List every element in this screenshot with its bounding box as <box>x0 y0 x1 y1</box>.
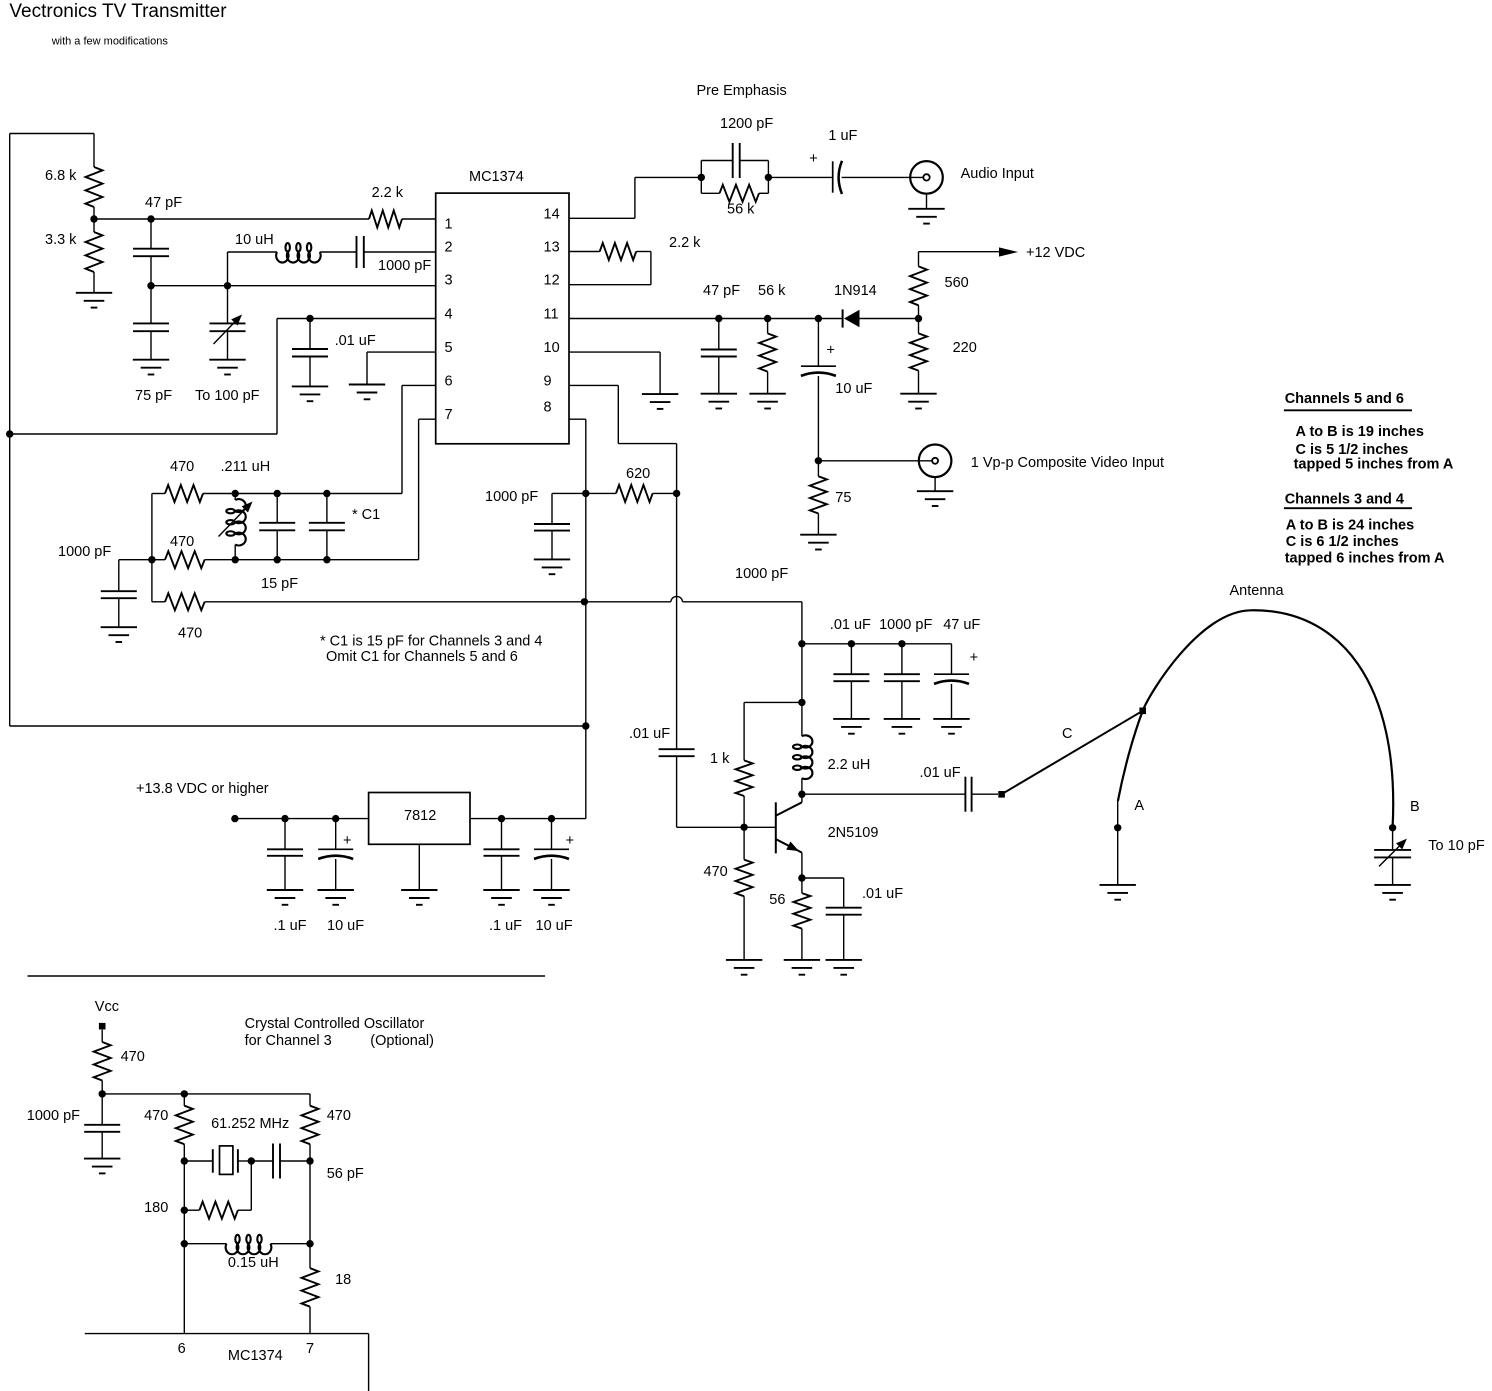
svg-text:470: 470 <box>121 1049 145 1065</box>
svg-text:C is 6 1/2 inches: C is 6 1/2 inches <box>1286 534 1399 550</box>
svg-text:56: 56 <box>769 892 785 908</box>
svg-text:A: A <box>1134 798 1144 814</box>
svg-text:7: 7 <box>306 1341 314 1357</box>
svg-text:1N914: 1N914 <box>834 283 877 299</box>
svg-text:1 k: 1 k <box>710 751 730 767</box>
svg-text:2: 2 <box>445 240 453 256</box>
svg-text:10 uH: 10 uH <box>235 232 274 248</box>
svg-text:10: 10 <box>544 340 560 356</box>
svg-text:1000 pF: 1000 pF <box>735 566 788 582</box>
svg-text:for Channel 3: for Channel 3 <box>245 1033 332 1049</box>
svg-text:47 pF: 47 pF <box>145 195 182 211</box>
svg-text:.01 uF: .01 uF <box>335 333 376 349</box>
svg-text:A to B is 19 inches: A to B is 19 inches <box>1296 424 1424 440</box>
svg-text:220: 220 <box>953 340 977 356</box>
svg-text:.01 uF: .01 uF <box>830 617 871 633</box>
svg-text:Audio Input: Audio Input <box>961 166 1034 182</box>
svg-text:Channels 5 and 6: Channels 5 and 6 <box>1285 391 1404 407</box>
svg-text:18: 18 <box>335 1272 351 1288</box>
svg-text:1 uF: 1 uF <box>828 128 857 144</box>
svg-text:9: 9 <box>544 373 552 389</box>
svg-text:6.8 k: 6.8 k <box>45 168 77 184</box>
svg-text:2.2 k: 2.2 k <box>669 235 701 251</box>
svg-text:1200 pF: 1200 pF <box>720 116 773 132</box>
svg-text:620: 620 <box>626 466 650 482</box>
svg-text:11: 11 <box>544 307 559 323</box>
svg-text:MC1374: MC1374 <box>228 1348 283 1364</box>
svg-text:Omit C1 for Channels 5 and 6: Omit C1 for Channels 5 and 6 <box>326 649 518 665</box>
svg-text:75: 75 <box>835 490 851 506</box>
svg-text:8: 8 <box>544 400 552 416</box>
svg-text:470: 470 <box>144 1108 168 1124</box>
svg-text:10 uF: 10 uF <box>536 918 573 934</box>
svg-text:Crystal Controlled Oscillator: Crystal Controlled Oscillator <box>245 1016 425 1032</box>
svg-text:0.15 uH: 0.15 uH <box>228 1255 279 1271</box>
svg-text:+12 VDC: +12 VDC <box>1026 245 1085 261</box>
svg-text:2N5109: 2N5109 <box>828 825 879 841</box>
svg-text:Pre Emphasis: Pre Emphasis <box>697 83 787 99</box>
svg-text:5: 5 <box>445 340 453 356</box>
svg-text:56 k: 56 k <box>727 202 755 218</box>
svg-text:MC1374: MC1374 <box>469 169 524 185</box>
svg-text:1000 pF: 1000 pF <box>378 258 431 274</box>
svg-text:C: C <box>1062 726 1072 742</box>
svg-text:To 10 pF: To 10 pF <box>1428 838 1485 854</box>
svg-text:1: 1 <box>445 216 453 232</box>
svg-text:1000 pF: 1000 pF <box>58 544 111 560</box>
svg-text:.1 uF: .1 uF <box>489 918 522 934</box>
svg-text:1000 pF: 1000 pF <box>27 1108 80 1124</box>
svg-text:.01 uF: .01 uF <box>920 765 961 781</box>
svg-text:7812: 7812 <box>404 808 436 824</box>
svg-text:560: 560 <box>945 275 969 291</box>
svg-text:+13.8 VDC or higher: +13.8 VDC or higher <box>136 781 269 797</box>
svg-text:7: 7 <box>445 407 453 423</box>
svg-text:15 pF: 15 pF <box>261 576 298 592</box>
svg-text:10 uF: 10 uF <box>835 381 872 397</box>
svg-text:+: + <box>970 650 978 666</box>
svg-text:Channels 3 and 4: Channels 3 and 4 <box>1285 492 1404 508</box>
svg-text:Vectronics TV Transmitter: Vectronics TV Transmitter <box>9 1 227 22</box>
svg-text:2.2 uH: 2.2 uH <box>828 757 871 773</box>
svg-text:10 uF: 10 uF <box>327 918 364 934</box>
svg-text:6: 6 <box>178 1341 186 1357</box>
svg-text:To 100 pF: To 100 pF <box>195 388 260 404</box>
svg-text:(Optional): (Optional) <box>370 1033 434 1049</box>
svg-text:470: 470 <box>327 1108 351 1124</box>
svg-text:3.3 k: 3.3 k <box>45 232 77 248</box>
svg-text:.01 uF: .01 uF <box>629 726 670 742</box>
svg-text:56 k: 56 k <box>758 283 786 299</box>
svg-text:470: 470 <box>170 534 194 550</box>
svg-text:+: + <box>827 343 835 359</box>
svg-text:12: 12 <box>544 273 560 289</box>
svg-text:14: 14 <box>544 206 560 222</box>
svg-text:tapped 5 inches from A: tapped 5 inches from A <box>1294 457 1454 473</box>
svg-text:13: 13 <box>544 240 560 256</box>
svg-text:47 pF: 47 pF <box>703 283 740 299</box>
svg-text:+: + <box>809 151 817 167</box>
svg-text:180: 180 <box>144 1200 168 1216</box>
svg-text:2.2 k: 2.2 k <box>372 185 404 201</box>
svg-text:Antenna: Antenna <box>1230 583 1285 599</box>
svg-text:470: 470 <box>178 626 202 642</box>
svg-text:1000 pF: 1000 pF <box>485 489 538 505</box>
svg-text:+: + <box>343 833 351 849</box>
svg-text:75 pF: 75 pF <box>135 388 172 404</box>
svg-text:3: 3 <box>445 273 453 289</box>
svg-text:B: B <box>1410 799 1420 815</box>
svg-text:.1 uF: .1 uF <box>274 918 307 934</box>
svg-text:+: + <box>566 833 574 849</box>
svg-text:1 Vp-p Composite Video Input: 1 Vp-p Composite Video Input <box>971 455 1164 471</box>
svg-text:tapped 6 inches from A: tapped 6 inches from A <box>1285 551 1445 567</box>
svg-text:6: 6 <box>445 373 453 389</box>
svg-text:A to B is 24 inches: A to B is 24 inches <box>1286 518 1414 534</box>
svg-text:1000 pF: 1000 pF <box>879 617 932 633</box>
svg-text:.211 uH: .211 uH <box>221 459 271 475</box>
svg-text:* C1: * C1 <box>352 507 380 523</box>
svg-text:47 uF: 47 uF <box>943 617 980 633</box>
svg-text:* C1 is 15 pF for Channels 3 a: * C1 is 15 pF for Channels 3 and 4 <box>320 634 542 650</box>
svg-text:4: 4 <box>445 307 453 323</box>
svg-text:Vcc: Vcc <box>95 999 119 1015</box>
svg-text:470: 470 <box>170 459 194 475</box>
svg-text:61.252 MHz: 61.252 MHz <box>211 1116 289 1132</box>
svg-text:56 pF: 56 pF <box>327 1166 364 1182</box>
svg-text:470: 470 <box>704 864 728 880</box>
svg-text:with a few modifications: with a few modifications <box>51 36 169 48</box>
svg-text:.01 uF: .01 uF <box>862 886 903 902</box>
